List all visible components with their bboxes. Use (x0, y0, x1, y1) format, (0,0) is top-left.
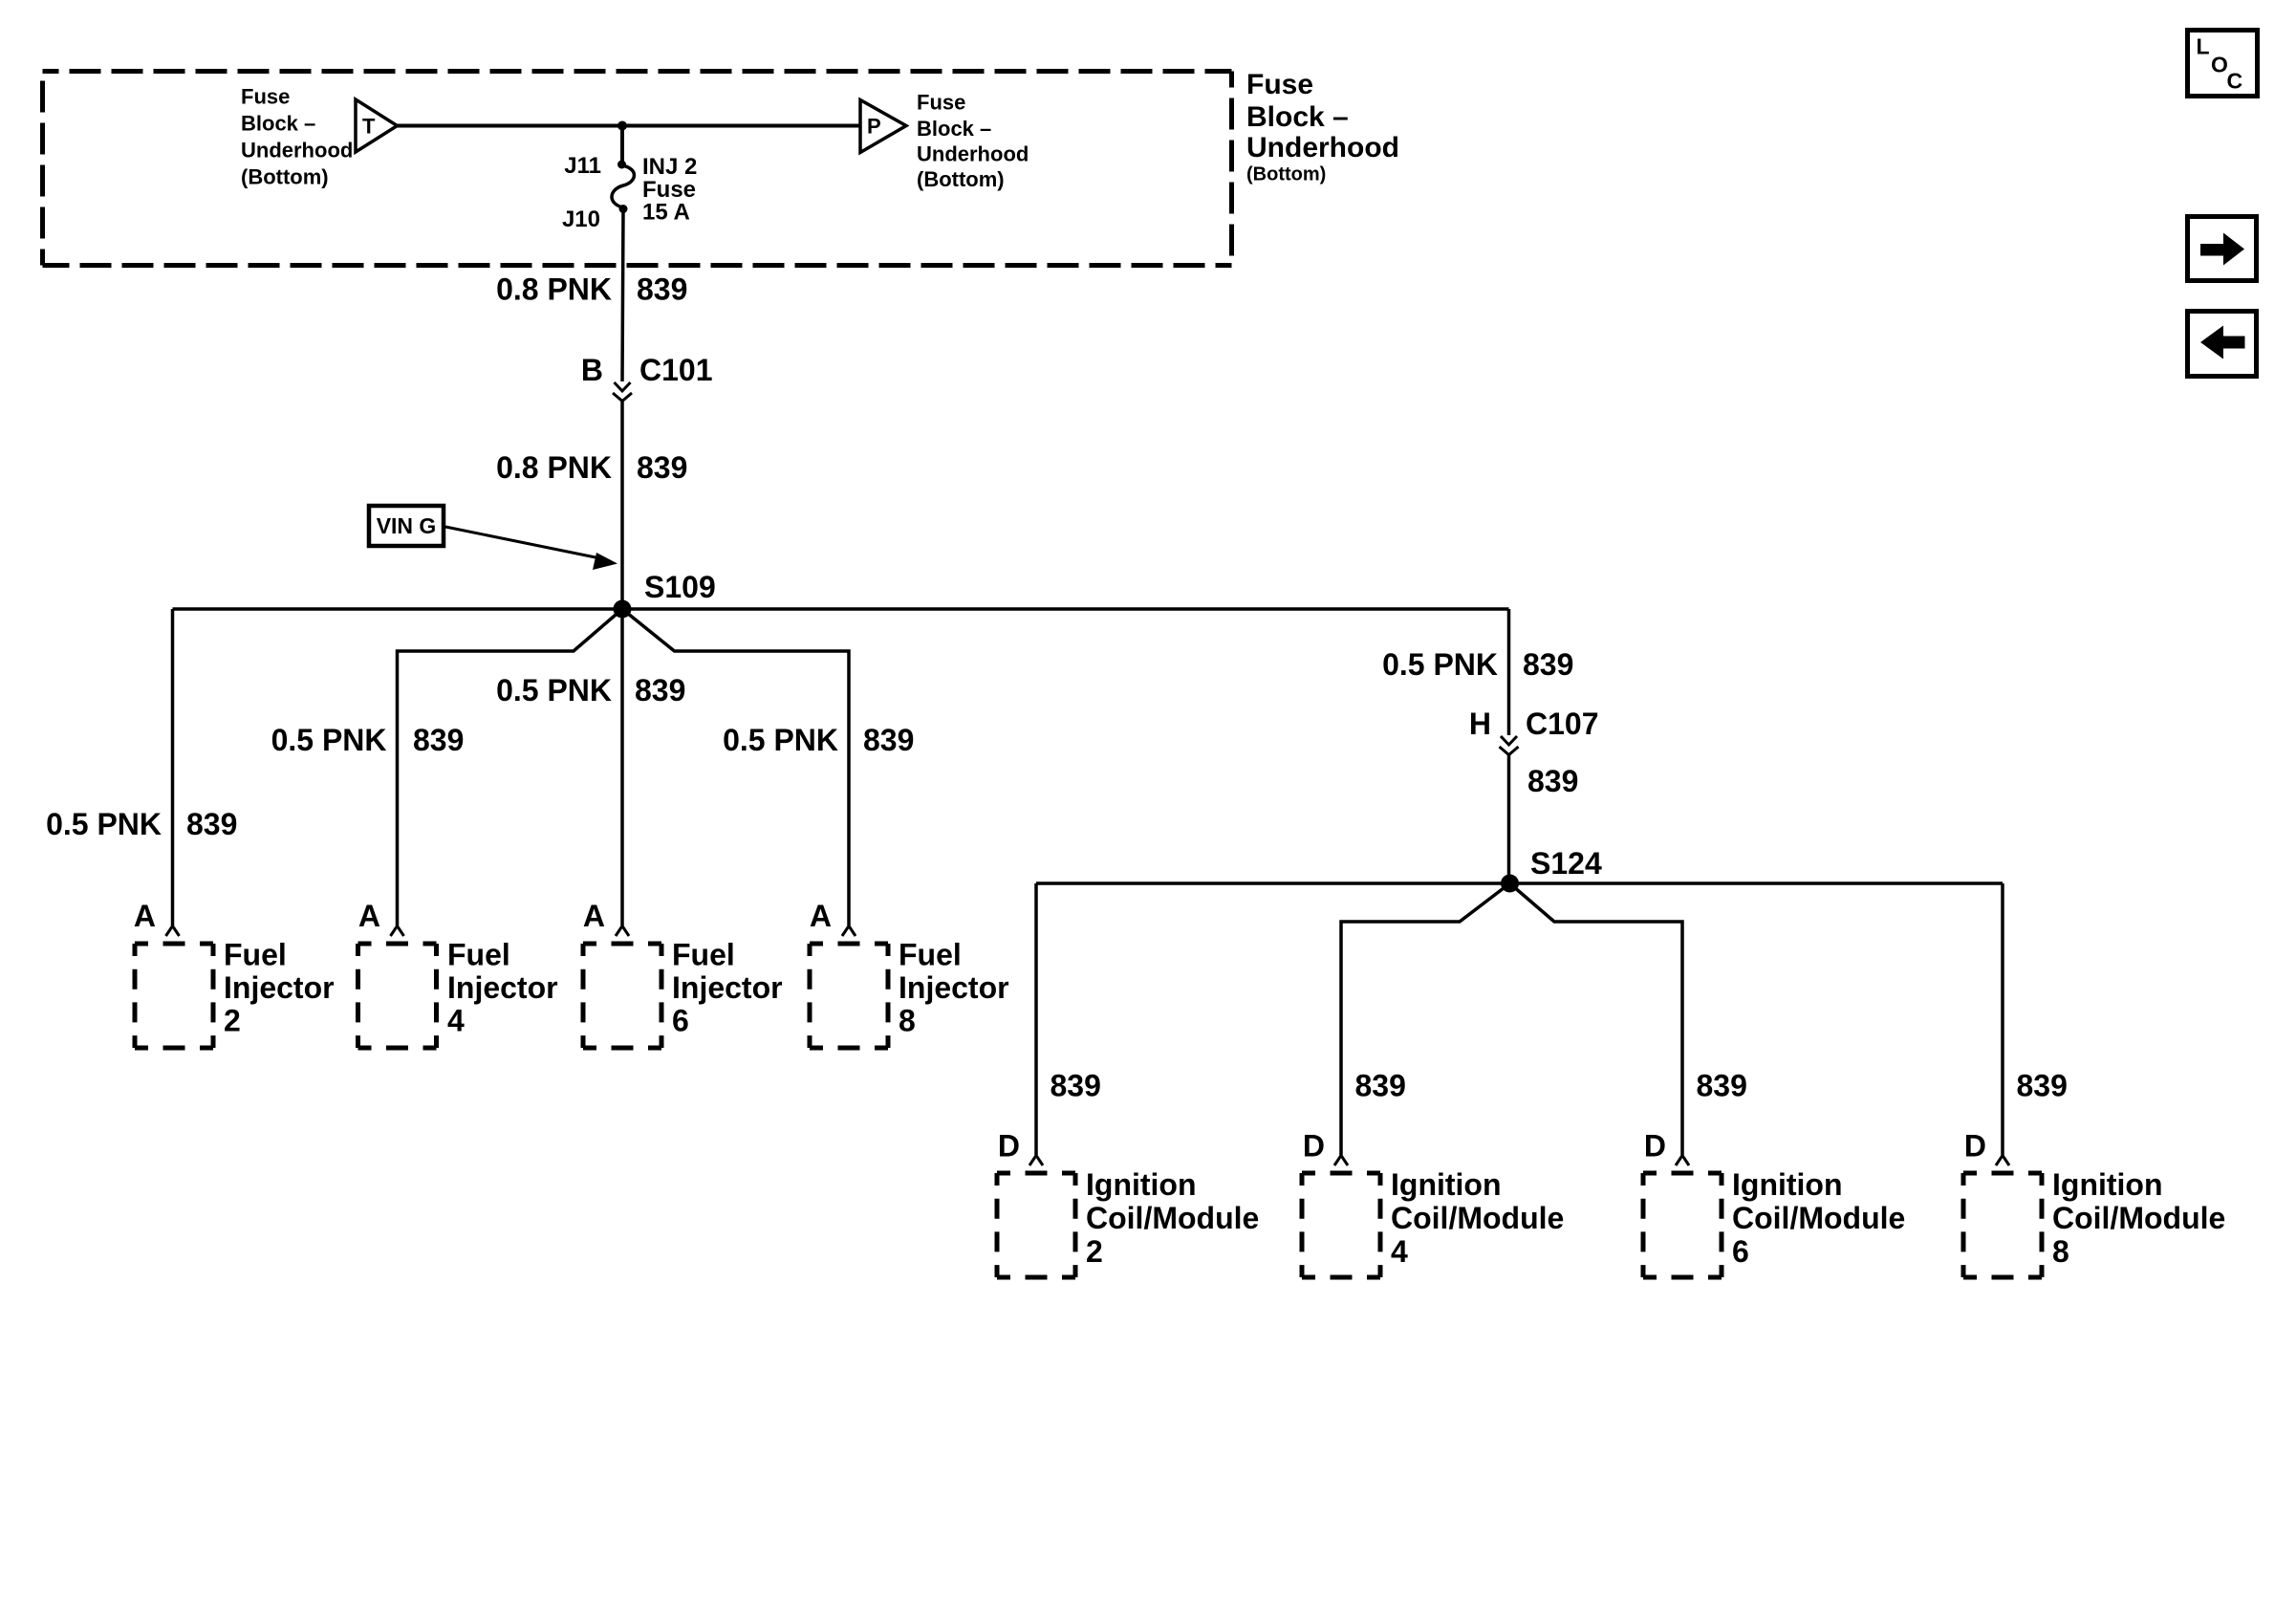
svg-text:839: 839 (1527, 764, 1578, 798)
svg-text:Coil/Module: Coil/Module (2052, 1201, 2225, 1235)
svg-text:8: 8 (899, 1004, 916, 1038)
svg-text:Block –: Block – (241, 112, 315, 136)
svg-text:8: 8 (2052, 1234, 2069, 1269)
svg-text:(Bottom): (Bottom) (917, 167, 1005, 191)
svg-text:0.5 PNK: 0.5 PNK (271, 723, 387, 757)
svg-text:Fuel: Fuel (447, 938, 510, 972)
svg-text:Underhood: Underhood (917, 142, 1029, 166)
svg-text:839: 839 (635, 673, 685, 707)
svg-text:Ignition: Ignition (1086, 1167, 1197, 1202)
svg-text:P: P (867, 115, 881, 139)
svg-text:839: 839 (2017, 1069, 2068, 1103)
svg-text:Underhood: Underhood (241, 139, 353, 163)
wire: branch to fuel injector 8 (622, 609, 849, 925)
wire: junction down to fuse (620, 126, 624, 165)
svg-text:2: 2 (224, 1004, 241, 1038)
wire: top horizontal inside fuse block (398, 124, 861, 128)
component box: Fuel Injector 6 (583, 944, 661, 1048)
wire: C101 down to S109 (620, 402, 624, 610)
svg-text:839: 839 (637, 450, 687, 485)
svg-text:Ignition: Ignition (1391, 1167, 1502, 1202)
svg-text:839: 839 (186, 807, 237, 841)
svg-text:L: L (2197, 34, 2210, 59)
wire: branch to ignition coil 8 (2001, 883, 2004, 1155)
svg-text:6: 6 (1732, 1234, 1749, 1269)
svg-text:D: D (1644, 1129, 1666, 1164)
svg-text:Fuel: Fuel (672, 938, 735, 972)
component box: Ignition Coil/Module 6 (1643, 1173, 1722, 1277)
svg-text:D: D (1303, 1129, 1325, 1164)
component box: Ignition Coil/Module 8 (1963, 1173, 2042, 1277)
svg-text:(Bottom): (Bottom) (241, 165, 329, 189)
svg-text:A: A (134, 899, 156, 933)
svg-text:Underhood: Underhood (1246, 132, 1399, 163)
svg-text:4: 4 (447, 1004, 465, 1038)
connector triangle P (860, 100, 906, 153)
svg-text:839: 839 (413, 723, 464, 757)
svg-text:Fuse: Fuse (917, 91, 965, 115)
svg-text:839: 839 (1697, 1069, 1747, 1103)
svg-text:C: C (2227, 69, 2243, 94)
VIN G callout arrow (445, 527, 600, 558)
svg-text:H: H (1469, 707, 1491, 741)
svg-text:0.5 PNK: 0.5 PNK (1382, 647, 1498, 682)
svg-text:Injector: Injector (224, 970, 335, 1005)
svg-text:839: 839 (1051, 1069, 1101, 1103)
svg-text:S109: S109 (644, 570, 716, 604)
svg-text:Fuel: Fuel (224, 938, 287, 972)
svg-text:Block –: Block – (917, 117, 991, 141)
svg-text:Coil/Module: Coil/Module (1391, 1201, 1564, 1235)
wire: branch to ignition coil 4 (1341, 883, 1510, 1155)
svg-text:Fuse: Fuse (1246, 69, 1313, 100)
svg-text:0.8 PNK: 0.8 PNK (496, 272, 612, 307)
svg-text:J10: J10 (562, 207, 600, 232)
svg-text:S124: S124 (1530, 846, 1602, 881)
svg-text:Coil/Module: Coil/Module (1086, 1201, 1259, 1235)
svg-text:D: D (1964, 1129, 1986, 1164)
svg-text:Injector: Injector (447, 970, 558, 1005)
left arrow legend icon (2188, 312, 2257, 377)
svg-text:Fuse: Fuse (241, 84, 290, 108)
component box: Fuel Injector 4 (358, 944, 437, 1048)
svg-text:A: A (583, 899, 605, 933)
svg-text:839: 839 (1523, 647, 1573, 682)
svg-text:Coil/Module: Coil/Module (1732, 1201, 1905, 1235)
svg-text:Block –: Block – (1246, 101, 1349, 133)
svg-text:0.8 PNK: 0.8 PNK (496, 450, 612, 485)
svg-text:T: T (362, 115, 376, 139)
svg-text:C101: C101 (639, 353, 713, 387)
svg-text:D: D (998, 1129, 1020, 1164)
wire: S109 horizontal bus (173, 607, 1509, 611)
svg-text:839: 839 (637, 272, 687, 307)
right arrow legend icon (2188, 217, 2257, 281)
svg-text:0.5 PNK: 0.5 PNK (723, 723, 838, 757)
svg-text:B: B (581, 353, 603, 387)
component box: Fuel Injector 2 (135, 944, 213, 1048)
svg-text:Injector: Injector (672, 970, 783, 1005)
svg-text:839: 839 (1355, 1069, 1406, 1103)
svg-text:0.5 PNK: 0.5 PNK (46, 807, 162, 841)
wire: branch to fuel injector 4 (398, 609, 623, 925)
svg-text:Ignition: Ignition (2052, 1167, 2163, 1202)
node junction dot on top wire (617, 121, 627, 131)
svg-text:2: 2 (1086, 1234, 1103, 1269)
svg-text:(Bottom): (Bottom) (1246, 164, 1326, 185)
svg-text:15 A: 15 A (642, 200, 690, 226)
svg-text:Ignition: Ignition (1732, 1167, 1843, 1202)
wire: branch to ignition coil 6 (1510, 883, 1683, 1155)
wire: fuse down through dashed border (622, 209, 623, 382)
svg-text:Fuel: Fuel (899, 938, 962, 972)
wire: branch to ignition coil 2 (1034, 883, 1038, 1155)
VIN G callout box (369, 506, 444, 546)
svg-text:O: O (2211, 53, 2228, 77)
wire: branch to fuel injector 2 (171, 609, 175, 925)
component box: Ignition Coil/Module 2 (997, 1173, 1075, 1277)
svg-text:A: A (810, 899, 832, 933)
component box: Ignition Coil/Module 4 (1302, 1173, 1380, 1277)
svg-text:839: 839 (863, 723, 914, 757)
fuse F1 INJ 2 15A : terminal dots and wiggle element (617, 161, 626, 169)
svg-text:0.5 PNK: 0.5 PNK (496, 673, 612, 707)
svg-text:Injector: Injector (899, 970, 1009, 1005)
component box: Fuel Injector 8 (810, 944, 888, 1048)
svg-text:4: 4 (1391, 1234, 1408, 1269)
svg-text:C107: C107 (1526, 707, 1599, 741)
svg-text:VIN G: VIN G (377, 513, 437, 538)
svg-text:A: A (358, 899, 380, 933)
connector triangle T (356, 99, 398, 152)
svg-text:J11: J11 (564, 153, 601, 179)
svg-text:6: 6 (672, 1004, 689, 1038)
wire: branch to fuel injector 6 (620, 618, 624, 925)
wire: S109 right riser down to C107 (1507, 609, 1511, 735)
LOC legend icon (2188, 31, 2258, 97)
wire: S124 horizontal bus (1036, 881, 2003, 885)
wire: C107 down to S124 (1507, 755, 1511, 884)
fuse block dashed boundary box (43, 72, 1232, 266)
